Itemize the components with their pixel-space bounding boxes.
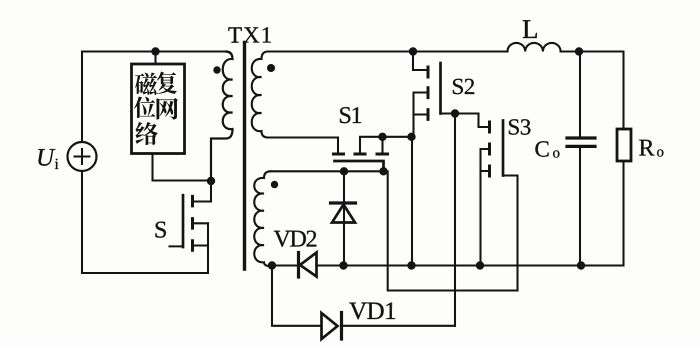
diode VD1 <box>322 313 342 340</box>
resistor Ro <box>617 129 631 266</box>
node S1 gate junction <box>379 167 387 175</box>
node S1 source <box>378 133 386 141</box>
diode clamp (vertical, near S1) <box>331 171 356 265</box>
inductor L <box>508 43 561 52</box>
primary polarity dot <box>213 66 220 73</box>
node S3 source return <box>476 261 484 269</box>
wire return rail VD2 to right corner <box>317 264 624 266</box>
label S1 <box>340 107 361 123</box>
wire S1 source to S2 source rail <box>383 136 413 138</box>
node reset-box tap <box>151 47 159 55</box>
node B primary/reset/S-drain junction <box>207 177 215 185</box>
wire S2 gate node down to VD1 cathode <box>454 114 456 326</box>
transistor S1 (MOSFET, rotated) <box>334 137 388 172</box>
node S2 drain tap <box>409 47 417 55</box>
transistor S2 (MOSFET) <box>413 52 455 137</box>
wire secondary1 top to S2 drain node <box>268 50 508 52</box>
wire left rail lower <box>81 171 83 273</box>
secondary winding 1 (upper) <box>252 52 268 138</box>
wire source rail down to output return <box>411 137 413 266</box>
label Ui <box>38 149 58 169</box>
node Co bottom return <box>577 261 585 269</box>
secondary 1 polarity dot <box>267 64 275 72</box>
wire bottom-left <box>82 272 208 274</box>
diode VD2 <box>299 253 317 278</box>
label VD2 <box>274 231 316 247</box>
wire secondary1 bottom to S1 drain <box>268 138 338 153</box>
label S3 <box>509 119 530 134</box>
node Co tap top <box>575 47 583 55</box>
wire VD1 branch left <box>272 266 320 326</box>
transformer core <box>243 43 246 270</box>
wire output return rail <box>272 264 297 266</box>
label L <box>523 20 537 38</box>
label Ro <box>639 140 663 157</box>
node clamp diode tap <box>340 167 348 175</box>
label S <box>156 222 166 238</box>
wire VD1 cathode to S2 gate riser <box>342 325 456 327</box>
transistor S (MOSFET) <box>170 181 212 273</box>
label S2 <box>453 79 474 94</box>
wire L to top-right corner <box>561 52 624 130</box>
wire S2 gate node to S3 drain <box>455 114 488 128</box>
wire top-left rail <box>82 50 226 52</box>
node transformer return <box>268 261 276 269</box>
transistor S3 (MOSFET) <box>481 121 518 291</box>
label VD1 <box>349 303 395 320</box>
primary winding <box>211 52 233 182</box>
source Ui (circle with plus) <box>68 142 97 171</box>
node S1/S2 source junction <box>407 133 415 141</box>
label Co <box>535 141 559 157</box>
secondary winding 2 (lower) <box>254 171 272 266</box>
wire reset-box top stub <box>154 52 156 65</box>
capacitor Co <box>567 52 595 266</box>
wire left rail upper <box>81 52 83 143</box>
secondary 2 polarity dot <box>271 181 278 188</box>
reset network box 磁复位网络 <box>132 64 185 154</box>
wire gate net down and across to S3 gate <box>384 171 518 290</box>
node source rail return <box>407 261 415 269</box>
label TX1 <box>228 27 270 42</box>
wire secondary2 top to S1 gate <box>271 170 384 172</box>
node clamp diode bottom <box>339 261 347 269</box>
wire reset-box bottom to node B <box>153 154 212 181</box>
node S2 gate junction <box>451 109 459 117</box>
